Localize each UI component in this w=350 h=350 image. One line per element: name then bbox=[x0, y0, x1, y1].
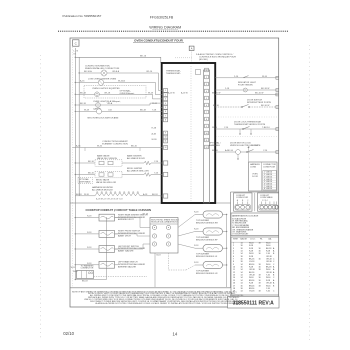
svg-text:BK-18: BK-18 bbox=[80, 93, 87, 95]
svg-text:CONN FOUR: CONN FOUR bbox=[263, 167, 276, 169]
bake valve row wire bbox=[75, 162, 95, 164]
svg-text:BK-16 W: BK-16 W bbox=[212, 93, 220, 95]
svg-text:WIRING DIAGRAM: WIRING DIAGRAM bbox=[149, 25, 181, 29]
svg-text:4: 4 bbox=[206, 91, 207, 93]
svg-text:12: 12 bbox=[205, 147, 207, 149]
header dashed divider bbox=[58, 30, 289, 32]
svg-text:Y-16: Y-16 bbox=[266, 291, 270, 293]
svg-text:11: 11 bbox=[165, 141, 167, 143]
spark module bottom solid wire bbox=[154, 253, 156, 287]
staircase elbow row1 bbox=[147, 73, 163, 91]
svg-text:W-16: W-16 bbox=[97, 146, 103, 148]
dashed separator 1 bbox=[216, 116, 277, 118]
svg-text:2: 2 bbox=[206, 77, 207, 79]
svg-text:02/10: 02/10 bbox=[63, 331, 74, 336]
svg-text:OVEN LIGHTS IF EQUIPPED: OVEN LIGHTS IF EQUIPPED bbox=[92, 88, 120, 90]
convection element row wire bbox=[72, 147, 160, 149]
cooktop switch 3 wire bbox=[75, 248, 99, 250]
svg-text:ALLUMEUR FOUR: ALLUMEUR FOUR bbox=[127, 157, 145, 160]
svg-text:LA MISE A LA TERRE DOIT ETRE C: LA MISE A LA TERRE DOIT ETRE CONFORME AU… bbox=[95, 302, 244, 305]
bake valve symbols bbox=[99, 161, 104, 164]
svg-text:COL 1: COL 1 bbox=[250, 238, 255, 240]
broil igniter symbol bbox=[144, 173, 151, 177]
svg-text:BK-16 W: BK-16 W bbox=[261, 105, 269, 107]
svg-text:1: 1 bbox=[165, 90, 166, 92]
svg-text:ALLUMEUR GRILLOIR: ALLUMEUR GRILLOIR bbox=[127, 169, 149, 172]
svg-text:W-16 A: W-16 A bbox=[118, 80, 125, 83]
scan page edge left dotted bbox=[40, 55, 42, 338]
top rail wire bbox=[75, 57, 161, 63]
conduit connector box 2 bbox=[258, 193, 279, 211]
eoc node dotted drop bbox=[191, 51, 193, 64]
door lock row wire bbox=[215, 128, 279, 130]
svg-text:DOOR: DOOR bbox=[252, 176, 259, 178]
svg-text:THERMOSTAT-: THERMOSTAT- bbox=[166, 72, 181, 75]
oven light lamp symbol bbox=[95, 92, 100, 97]
thermal limiter bottom wire bbox=[75, 279, 106, 281]
oven lights optional dashed box bbox=[84, 86, 146, 99]
svg-text:OR-18: OR-18 bbox=[142, 214, 148, 216]
svg-text:O-B: O-B bbox=[108, 110, 112, 112]
cooktop left dotted margin bbox=[71, 203, 73, 288]
top burner 2 leads bbox=[195, 231, 203, 233]
svg-text:9: 9 bbox=[165, 133, 166, 135]
staircase elbow row4 bbox=[147, 103, 163, 105]
svg-text:7: 7 bbox=[165, 115, 166, 117]
top burner 3 oval bbox=[203, 245, 223, 252]
svg-text:OR-18: OR-18 bbox=[104, 93, 111, 95]
svg-text:A: A bbox=[191, 47, 193, 51]
svg-text:BK-16: BK-16 bbox=[88, 173, 95, 175]
left row stubs to eoc lower bbox=[160, 106, 163, 108]
conduit connector box 1 bbox=[234, 193, 252, 211]
convection fan motor bbox=[101, 70, 107, 76]
eoc left connector squares mid bbox=[163, 131, 167, 135]
svg-text:BK-16: BK-16 bbox=[88, 161, 95, 163]
broil valve symbols bbox=[99, 173, 104, 176]
cooktop switch box 1 bbox=[99, 214, 115, 221]
svg-text:12: 12 bbox=[164, 147, 166, 149]
svg-text:A-16 W: A-16 W bbox=[181, 91, 188, 94]
svg-text:L1 N: L1 N bbox=[74, 51, 79, 53]
left bus N bbox=[78, 57, 80, 196]
svg-text:A-16 W: A-16 W bbox=[168, 91, 175, 94]
right row 3 wire bbox=[215, 94, 279, 96]
staircase elbow row5 bbox=[147, 110, 163, 112]
svg-text:Publication No: 5995560157: Publication No: 5995560157 bbox=[63, 14, 102, 18]
latch motor symbol bbox=[96, 109, 101, 114]
svg-text:AVAILABLE: AVAILABLE bbox=[209, 144, 221, 147]
svg-text:10: 10 bbox=[164, 137, 166, 139]
door motor drop bbox=[237, 154, 239, 159]
wire table box bbox=[231, 237, 279, 295]
svg-text:7: 7 bbox=[206, 112, 207, 114]
svg-text:GAUGE: GAUGE bbox=[240, 237, 248, 240]
svg-text:WIRE: WIRE bbox=[233, 238, 239, 240]
svg-text:COOKTOP CONDUIT (/ CIRCUIT: COOKTOP CONDUIT (/ CIRCUIT TABLE CUISSON bbox=[86, 208, 152, 212]
svg-text:AVANT DROIT: AVANT DROIT bbox=[118, 235, 132, 238]
right row 1 pin bbox=[276, 76, 279, 79]
eoc right connector squares bbox=[205, 68, 209, 72]
svg-text:8: 8 bbox=[206, 119, 207, 121]
optional dashed box bbox=[78, 178, 93, 184]
eoc small box p17 bbox=[196, 70, 201, 75]
svg-text:B-18: B-18 bbox=[157, 255, 161, 257]
top burner 1 oval bbox=[203, 211, 223, 218]
oven light row wire bbox=[75, 93, 146, 95]
svg-text:CONN: CONN bbox=[250, 167, 256, 169]
svg-text:(ES 300): (ES 300) bbox=[199, 59, 208, 61]
svg-text:BK-18: BK-18 bbox=[76, 194, 82, 196]
terminal sawtooth row bbox=[95, 193, 140, 196]
cooktop switch box 2 bbox=[99, 231, 115, 238]
eoc left connector squares lower bbox=[163, 161, 167, 165]
svg-text:BK-18: BK-18 bbox=[140, 110, 147, 112]
spark module electrodes bbox=[152, 225, 156, 229]
svg-text:BK-16: BK-16 bbox=[213, 105, 220, 107]
oven light 2 lamp bbox=[96, 103, 101, 108]
indicator row pin bbox=[276, 89, 279, 92]
convection fan row wire bbox=[79, 72, 147, 74]
oven igniter row wire bbox=[75, 82, 147, 84]
svg-text:BK-18: BK-18 bbox=[80, 103, 87, 105]
door motor symbol bbox=[236, 150, 241, 155]
svg-text:W-18: W-18 bbox=[73, 271, 77, 273]
svg-text:8: 8 bbox=[165, 120, 166, 122]
spark module header bbox=[150, 223, 178, 225]
svg-text:16: 16 bbox=[259, 253, 261, 255]
conduit connector 1 inner bbox=[235, 204, 251, 210]
cooktop switch box 4 bbox=[99, 261, 115, 268]
svg-text:3: 3 bbox=[165, 99, 166, 101]
svg-text:ELEMENT CONVECTION: ELEMENT CONVECTION bbox=[102, 143, 128, 145]
notes strip divider bbox=[70, 287, 231, 289]
svg-text:AVANT GAUCHE: AVANT GAUCHE bbox=[118, 250, 134, 253]
electronic oven control box bbox=[162, 63, 216, 203]
indicator lamp symbol bbox=[243, 88, 247, 92]
oven light 2 row wire bbox=[75, 104, 147, 106]
right row 1 wire bbox=[215, 77, 279, 79]
broil valve dashed box bbox=[95, 171, 122, 178]
harness connector divider bbox=[261, 162, 263, 191]
svg-text:A-1B: A-1B bbox=[152, 133, 157, 136]
cooktop switch 1 out wire bbox=[115, 217, 119, 219]
harness connector box bbox=[249, 162, 278, 191]
door motor row wire bbox=[215, 151, 279, 153]
svg-text:BRULEUR DESSUS LR: BRULEUR DESSUS LR bbox=[196, 273, 218, 275]
svg-text:BK-18: BK-18 bbox=[152, 194, 158, 196]
svg-text:VALVE DE GRILLOIR: VALVE DE GRILLOIR bbox=[96, 181, 117, 184]
door lock drops bbox=[239, 129, 241, 134]
svg-text:4: 4 bbox=[165, 103, 166, 105]
svg-text:FIL: FIL bbox=[260, 238, 263, 240]
top burner 2 oval bbox=[203, 228, 223, 235]
door lock pin bbox=[276, 128, 279, 131]
svg-text:14: 14 bbox=[173, 331, 178, 336]
svg-text:W-1B: W-1B bbox=[152, 139, 158, 141]
svg-text:BRULEUR DESSUS LF: BRULEUR DESSUS LF bbox=[196, 256, 218, 258]
svg-text:THERMOSTAT VERROU PORTE: THERMOSTAT VERROU PORTE bbox=[234, 123, 266, 126]
svg-text:CONN TABLE: CONN TABLE bbox=[260, 196, 273, 199]
svg-text:BRULEUR DESSUS RR: BRULEUR DESSUS RR bbox=[196, 222, 218, 224]
svg-text:2: 2 bbox=[165, 94, 166, 96]
svg-text:A-BK-16: A-BK-16 bbox=[225, 149, 234, 152]
node C box bbox=[73, 40, 80, 46]
svg-text:MODULE D'ALLUMAGE ELECT.: MODULE D'ALLUMAGE ELECT. bbox=[151, 221, 179, 224]
cooktop left bus bbox=[74, 203, 76, 280]
svg-text:16: 16 bbox=[259, 258, 261, 260]
dashed separator 2 bbox=[216, 136, 277, 138]
svg-text:FFGS3025LFB: FFGS3025LFB bbox=[150, 15, 174, 19]
svg-text:BK-16: BK-16 bbox=[212, 150, 219, 152]
bake valve dashed box bbox=[95, 160, 122, 167]
svg-text:W-16: W-16 bbox=[212, 127, 218, 129]
bake igniter symbol bbox=[144, 161, 151, 165]
conduit connector 1 pins bbox=[236, 205, 240, 209]
svg-text:9: 9 bbox=[206, 126, 207, 128]
legend column divider horizontal bbox=[231, 191, 279, 193]
svg-text:11: 11 bbox=[206, 140, 208, 142]
cooktop switch 3 out wire bbox=[115, 248, 119, 250]
left bus L1 bbox=[74, 48, 76, 203]
spark module in wires bbox=[115, 218, 151, 228]
door motor switch bbox=[247, 150, 254, 153]
svg-text:MTD INTERLOCK SWITCH ASM: MTD INTERLOCK SWITCH ASM bbox=[88, 117, 119, 120]
svg-text:ALLUMEUR MODULE: ALLUMEUR MODULE bbox=[92, 188, 113, 191]
svg-text:WHEN INSTALLED CONVECTION: WHEN INSTALLED CONVECTION bbox=[85, 67, 120, 70]
svg-text:ABBREVIATION COULEUR: ABBREVIATION COULEUR bbox=[232, 215, 258, 218]
svg-text:BK-18: BK-18 bbox=[82, 280, 88, 282]
svg-text:18: 18 bbox=[259, 285, 261, 287]
svg-text:W-16: W-16 bbox=[262, 76, 268, 78]
svg-text:6: 6 bbox=[206, 105, 207, 107]
svg-text:5: 5 bbox=[206, 98, 207, 100]
broil valve row wire bbox=[75, 174, 95, 176]
svg-text:10: 10 bbox=[205, 133, 207, 135]
svg-text:1 2 3 4: 1 2 3 4 bbox=[262, 200, 268, 202]
thermal dashed wire bbox=[94, 275, 148, 277]
top burner 3 leads bbox=[195, 247, 203, 249]
svg-text:BK-16 A: BK-16 A bbox=[84, 70, 92, 73]
svg-text:6: 6 bbox=[165, 111, 166, 113]
svg-text:8 Y-BK16: 8 Y-BK16 bbox=[264, 188, 272, 190]
svg-text:ARRIERE DROIT: ARRIERE DROIT bbox=[118, 218, 134, 221]
svg-text:W-18: W-18 bbox=[71, 267, 75, 269]
svg-text:BK-16 W: BK-16 W bbox=[255, 93, 263, 95]
legend box bbox=[231, 213, 279, 236]
svg-text:5-16 A: 5-16 A bbox=[252, 144, 258, 147]
svg-text:1: 1 bbox=[206, 70, 207, 72]
svg-text:OVEN CONDUIT/(/CONDUIT FOUR: OVEN CONDUIT/(/CONDUIT FOUR bbox=[134, 38, 183, 42]
right row 3 pin bbox=[276, 93, 279, 96]
cooktop switch 4 out wire bbox=[115, 264, 119, 266]
svg-text:T-BK-16: T-BK-16 bbox=[262, 127, 270, 129]
oven/legend divider vertical bbox=[230, 192, 232, 288]
latch row wire bbox=[75, 110, 147, 112]
svg-text:18: 18 bbox=[259, 291, 261, 293]
eoc node A box bbox=[189, 46, 194, 50]
svg-text:5: 5 bbox=[165, 107, 166, 109]
burner return bus bbox=[226, 215, 228, 288]
door switch symbol bbox=[242, 105, 249, 108]
oven/cooktop divider horizontal bbox=[70, 202, 231, 204]
cooktop switch 1 wire bbox=[75, 217, 99, 219]
cooktop switch box 3 bbox=[99, 246, 115, 253]
svg-text:CONNECTOR: CONNECTOR bbox=[81, 268, 94, 270]
svg-text:FOUR TEMOIN: FOUR TEMOIN bbox=[238, 85, 253, 87]
spark module bottom dashed wire bbox=[168, 253, 170, 270]
conduit connector 2 pins bbox=[260, 205, 264, 209]
thermal limiter box bbox=[77, 271, 94, 279]
harness feed wire bbox=[248, 147, 250, 162]
top burner 1 leads bbox=[195, 214, 203, 216]
eoc left connector squares upper bbox=[163, 89, 167, 93]
door lock switch symbol bbox=[243, 127, 250, 130]
left inner dotted margin bbox=[71, 47, 73, 203]
door motor pin bbox=[276, 151, 279, 154]
electronic spark module box bbox=[150, 218, 178, 254]
spark module out wires bbox=[178, 215, 195, 228]
svg-text:ARRIERE GAUCHE: ARRIERE GAUCHE bbox=[118, 265, 137, 268]
svg-text:BK-18 W: BK-18 W bbox=[261, 88, 269, 90]
harness connector pin table bbox=[263, 171, 277, 191]
top burner 4 oval bbox=[203, 261, 223, 268]
svg-text:V. VIOLET/VIOLET: V. VIOLET/VIOLET bbox=[232, 234, 249, 236]
svg-text:BRULEUR DESSUS RF: BRULEUR DESSUS RF bbox=[196, 239, 218, 241]
svg-text:A-18 BK-18 OR-18 W-18 Y-18: A-18 BK-18 OR-18 W-18 Y-18 bbox=[96, 198, 124, 201]
svg-text:OR-B A: OR-B A bbox=[112, 70, 120, 73]
door switch row wire bbox=[215, 106, 242, 108]
part number box bbox=[228, 297, 280, 309]
indicator light row wire bbox=[215, 89, 279, 91]
cooktop switch 2 wire bbox=[75, 233, 99, 235]
cooktop switch chain vertical bbox=[106, 217, 108, 280]
conduit boxes divider bbox=[254, 193, 256, 211]
main diagram border bbox=[70, 38, 279, 307]
svg-text:BK-16: BK-16 bbox=[140, 55, 147, 57]
oven igniter symbol bbox=[98, 80, 104, 86]
svg-text:DISPONIBLE: DISPONIBLE bbox=[79, 182, 91, 184]
scan page edge right dotted bbox=[309, 45, 311, 340]
svg-text:W-18: W-18 bbox=[84, 110, 90, 112]
cooktop switch 4 wire bbox=[75, 264, 99, 266]
svg-text:18: 18 bbox=[259, 269, 261, 271]
svg-text:R-1B: R-1B bbox=[152, 128, 157, 130]
svg-text:3: 3 bbox=[206, 84, 207, 86]
svg-text:OR-A: OR-A bbox=[107, 102, 113, 105]
svg-text:18: 18 bbox=[259, 242, 261, 244]
cooktop switch 2 out wire bbox=[115, 233, 119, 235]
svg-text:14: 14 bbox=[241, 291, 243, 293]
eoc inner dashed centerline bbox=[190, 66, 192, 201]
svg-text:INTERRUPTEUR PORTE: INTERRUPTEUR PORTE bbox=[247, 102, 272, 104]
staircase elbow row3 bbox=[146, 94, 163, 99]
conduit connector 2 inner bbox=[259, 204, 278, 210]
staircase elbow row2 bbox=[147, 83, 163, 95]
top burner 4 leads bbox=[195, 264, 203, 266]
door switch pin bbox=[276, 106, 279, 109]
svg-text:BK-16: BK-16 bbox=[131, 146, 138, 148]
convection element ticks bbox=[84, 148, 86, 152]
svg-text:GY-18: GY-18 bbox=[249, 291, 254, 293]
svg-text:W-18: W-18 bbox=[152, 103, 158, 105]
svg-text:CONN FOUR: CONN FOUR bbox=[236, 197, 249, 199]
svg-text:CAL: CAL bbox=[268, 237, 272, 240]
eoc inner right rect bbox=[204, 70, 210, 203]
terminal row wire bbox=[75, 195, 95, 197]
